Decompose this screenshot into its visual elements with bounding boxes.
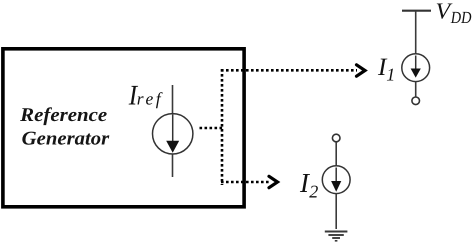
label I1 — [377, 54, 395, 85]
wire: Iref vertical — [172, 85, 174, 177]
arrowhead I2 — [269, 176, 278, 187]
wire: open terminal to current source I2 — [335, 142, 337, 166]
arrowhead I1 — [357, 65, 366, 76]
svg-text:ref: ref — [137, 89, 163, 109]
current source I2 — [322, 166, 350, 194]
wire: current source I2 to ground — [335, 194, 337, 230]
wire: dotted vertical bus — [221, 69, 224, 185]
current source I1 — [402, 54, 430, 82]
svg-text:Reference: Reference — [19, 105, 107, 126]
svg-text:2: 2 — [309, 181, 318, 201]
wire: dotted line to I2 — [221, 181, 269, 184]
label VDD — [436, 0, 473, 27]
label I2 — [299, 167, 318, 202]
wire: I1 source to open terminal — [415, 82, 417, 98]
current source Iref — [153, 114, 193, 154]
wire: dotted line to I1 — [221, 69, 357, 72]
svg-text:Generator: Generator — [22, 128, 110, 149]
VDD rail — [402, 10, 431, 12]
wire: VDD rail to current source I1 — [415, 11, 417, 55]
wire: dotted stub from Iref to bus — [200, 127, 225, 130]
ground — [325, 232, 348, 241]
open terminal node (I1 output) — [412, 97, 420, 105]
label Iref — [128, 80, 163, 111]
label: Reference Generator — [19, 105, 109, 149]
open terminal node (I2 input) — [332, 134, 340, 142]
svg-text:DD: DD — [450, 8, 472, 27]
svg-text:1: 1 — [386, 65, 395, 85]
reference generator box — [3, 49, 244, 207]
